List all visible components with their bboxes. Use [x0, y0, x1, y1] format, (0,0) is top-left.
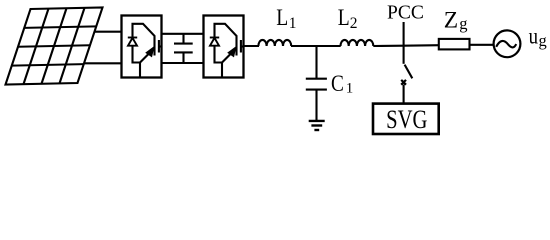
svg-text:1: 1	[289, 15, 297, 32]
svg-text:g: g	[459, 14, 467, 33]
svg-text:1: 1	[346, 81, 354, 97]
svg-text:Z: Z	[444, 8, 458, 34]
svg-text:SVG: SVG	[386, 106, 427, 135]
svg-text:C: C	[331, 70, 344, 96]
svg-text:g: g	[539, 31, 547, 50]
svg-text:L: L	[338, 5, 350, 31]
svg-text:PCC: PCC	[387, 2, 424, 23]
svg-text:u: u	[529, 23, 539, 50]
svg-text:2: 2	[350, 15, 358, 32]
svg-text:L: L	[276, 5, 288, 31]
